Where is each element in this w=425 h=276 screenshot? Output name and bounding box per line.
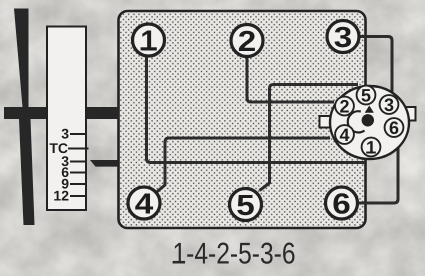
svg-text:4: 4 <box>339 125 349 145</box>
svg-text:2: 2 <box>238 26 257 58</box>
svg-text:3: 3 <box>384 95 394 115</box>
svg-text:4: 4 <box>135 188 154 220</box>
svg-text:1-4-2-5-3-6: 1-4-2-5-3-6 <box>173 238 296 271</box>
svg-text:1: 1 <box>140 25 156 57</box>
svg-text:1: 1 <box>366 138 376 158</box>
svg-text:12: 12 <box>53 188 69 204</box>
svg-text:5: 5 <box>236 190 255 222</box>
svg-text:3: 3 <box>334 22 353 54</box>
svg-text:5: 5 <box>361 86 371 106</box>
svg-text:6: 6 <box>332 188 351 220</box>
svg-text:6: 6 <box>389 118 399 138</box>
svg-text:2: 2 <box>339 97 349 117</box>
